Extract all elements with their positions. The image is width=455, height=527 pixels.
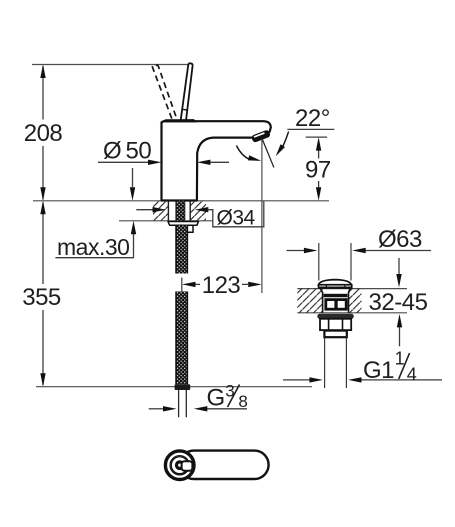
- drain body through deck: [321, 289, 351, 313]
- max.30 lower arrow (points up to deck bottom): [133, 234, 135, 258]
- svg-text:max.30: max.30: [57, 234, 129, 260]
- dimension 97 line: [318, 142, 320, 196]
- drain deck hatch right: [349, 289, 362, 313]
- 22 degree slanted outlet axis line: [262, 139, 274, 168]
- angle arc left with arrow: [236, 146, 250, 160]
- max.30 upper arrow (points down to deck top): [132, 168, 134, 187]
- handle part: notch: [182, 461, 193, 471]
- dimension 208 line: [42, 66, 44, 200]
- drain window divider: [334, 300, 337, 310]
- handle part: center C-ring: [176, 462, 182, 469]
- drain: dimension Ø63 witness lines: [319, 243, 351, 281]
- svg-text:G: G: [207, 385, 225, 412]
- deck top line (countertop surface): [33, 200, 329, 202]
- svg-text:208: 208: [24, 120, 63, 147]
- dimension 355 line: [42, 203, 44, 386]
- svg-text:Ø63: Ø63: [378, 226, 422, 253]
- svg-text:123: 123: [202, 272, 241, 299]
- drain locknut facets: [329, 319, 343, 330]
- drain deck hatch left: [297, 289, 322, 313]
- lever joint tick: [181, 108, 187, 111]
- svg-text:8: 8: [238, 392, 247, 411]
- G3/8 nipple pipe: [179, 390, 187, 417]
- faucet body and spout outline: [162, 121, 271, 200]
- dimension G1 1/4 right arrow: [361, 379, 442, 381]
- dimension 123 left arrow: [182, 282, 196, 287]
- dimension G 3/8 left arrow: [149, 408, 164, 410]
- dimension Ø50 line left with arrow: [98, 161, 150, 163]
- bottom extension line (hose end level): [36, 386, 312, 388]
- drain nut chamfer ring: [324, 331, 346, 338]
- dimension 355 arrow up: [40, 201, 45, 215]
- mounting nut on stud: [185, 225, 193, 232]
- dimension G 3/8 right arrow: [207, 408, 247, 410]
- threaded stud through deck (braided texture): [176, 201, 184, 221]
- dimension 123 right arrow: [242, 283, 248, 285]
- svg-text:Ø34: Ø34: [217, 206, 256, 229]
- lever handle raised position (dashed): [152, 65, 176, 119]
- spout tip vertical extension line: [261, 139, 263, 294]
- faucet shank tube edges: [176, 201, 185, 221]
- deck bottom line (underside of countertop): [119, 220, 213, 222]
- handle part: rosette outer circle: [165, 451, 194, 480]
- 22 degree label underline: [287, 128, 334, 130]
- drain cap rim: [319, 285, 352, 288]
- handle part: rosette inner rings: [170, 456, 189, 475]
- drain tailpipe: [325, 337, 347, 388]
- drain overflow windows frame: [326, 300, 346, 310]
- drain body collar line: [324, 294, 348, 297]
- dimension 123 center tick: [181, 278, 183, 292]
- svg-text:Ø 50: Ø 50: [103, 138, 151, 165]
- dimension 32-45 lower arrow (up): [399, 327, 401, 346]
- svg-text:355: 355: [22, 284, 61, 311]
- drain cap dome: [319, 280, 352, 285]
- mounting washer under deck: [168, 222, 199, 226]
- drain: dimension Ø63 right arrow: [365, 250, 431, 252]
- faucet mounting hole edges: [168, 201, 190, 221]
- lever handle (closed position, solid): [181, 63, 193, 121]
- hose connector nut: [175, 384, 191, 390]
- drain gasket: [317, 314, 354, 319]
- max.30 leader underline: [55, 257, 133, 259]
- spout tip level reference line for 97: [306, 136, 327, 138]
- flexible hose lower segment (braided): [176, 292, 187, 385]
- dimension G1 1/4 left arrow: [283, 379, 310, 381]
- lever base escutcheon (dark wedge on body top): [160, 119, 198, 122]
- dimension 97 arrow down: [316, 187, 321, 201]
- countertop hatch left block: [153, 201, 168, 221]
- countertop hatch right block: [190, 201, 206, 221]
- dimension 208 arrow up: [40, 65, 45, 79]
- dimension 97 arrow up: [316, 137, 321, 151]
- dimension 208 arrow down: [40, 187, 45, 201]
- drain locknut: [320, 319, 351, 330]
- svg-text:4: 4: [407, 365, 417, 385]
- svg-text:1: 1: [395, 348, 405, 368]
- svg-text:32-45: 32-45: [369, 289, 428, 316]
- aerator at spout tip (tilted dark band): [251, 129, 271, 143]
- top extension line (lever top level): [32, 64, 190, 66]
- dimension 32-45 upper arrow (down): [398, 258, 400, 275]
- dimension 355 arrow down: [40, 373, 45, 387]
- svg-text:22°: 22°: [295, 105, 330, 132]
- dimension Ø34 left arrow: [136, 209, 153, 211]
- drain deck top line: [297, 288, 407, 290]
- flexible hose upper segment (braided): [176, 225, 187, 273]
- drain: dimension Ø63 left arrow: [287, 250, 305, 252]
- svg-text:G1: G1: [363, 357, 394, 384]
- dimension Ø34 right arrow and leader to boxed label: [195, 207, 209, 212]
- handle part: bar (top view): [180, 451, 269, 479]
- svg-text:97: 97: [305, 157, 331, 184]
- angle arc right with arrow: [280, 132, 289, 151]
- dimension Ø50 line right with arrow: [208, 161, 229, 163]
- drain deck bottom line: [297, 312, 407, 314]
